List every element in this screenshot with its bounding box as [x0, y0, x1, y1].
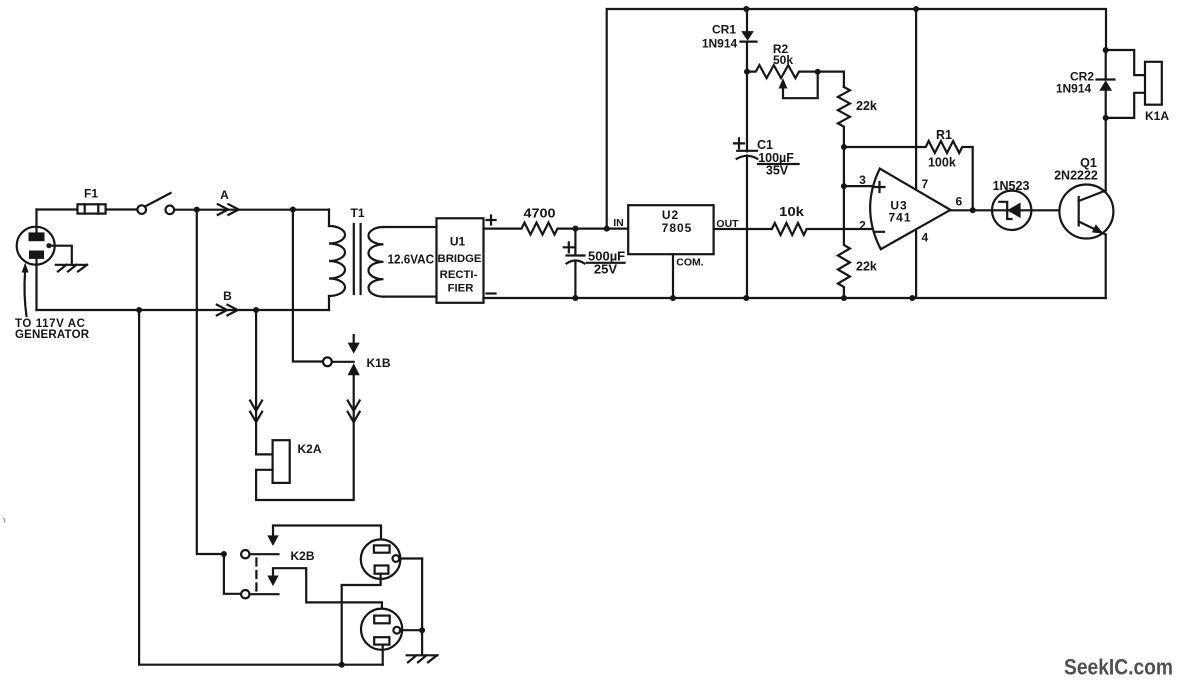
svg-text:50k: 50k	[773, 53, 793, 67]
svg-text:BRIDGE: BRIDGE	[438, 253, 482, 265]
svg-text:A: A	[220, 188, 229, 202]
svg-text:1N914: 1N914	[1056, 82, 1092, 96]
svg-text:U2: U2	[662, 208, 679, 222]
svg-text:6: 6	[956, 195, 963, 209]
svg-text:2N2222: 2N2222	[1054, 169, 1098, 183]
svg-text:741: 741	[888, 211, 911, 225]
svg-text:25V: 25V	[594, 262, 617, 277]
svg-text:100k: 100k	[928, 156, 956, 170]
svg-text:SeekIC.com: SeekIC.com	[1064, 655, 1173, 680]
svg-text:3: 3	[859, 173, 866, 187]
svg-text:4700: 4700	[524, 206, 556, 221]
svg-text:C1: C1	[757, 138, 773, 152]
svg-text:T1: T1	[350, 206, 364, 220]
svg-text:U1: U1	[450, 235, 466, 249]
svg-text:IN: IN	[613, 217, 624, 229]
svg-text:K2B: K2B	[291, 549, 315, 563]
svg-text:K1B: K1B	[367, 356, 391, 370]
svg-text:CR1: CR1	[712, 23, 736, 37]
svg-text:22k: 22k	[856, 260, 877, 274]
svg-text:COM.: COM.	[676, 257, 703, 269]
svg-text:K2A: K2A	[298, 442, 322, 456]
svg-text:7: 7	[922, 177, 929, 191]
svg-text:1N914: 1N914	[702, 37, 738, 51]
svg-text:RECTI-: RECTI-	[440, 269, 478, 281]
svg-text:7805: 7805	[662, 221, 693, 235]
svg-text:FIER: FIER	[448, 283, 474, 295]
svg-text:GENERATOR: GENERATOR	[15, 329, 90, 341]
svg-text:R1: R1	[936, 128, 952, 142]
svg-text:4: 4	[922, 231, 929, 245]
svg-text:1N523: 1N523	[993, 179, 1030, 193]
svg-text:22k: 22k	[856, 99, 877, 113]
svg-text:12.6VAC: 12.6VAC	[388, 253, 435, 267]
svg-text:35V: 35V	[766, 164, 789, 178]
svg-text:B: B	[223, 289, 232, 303]
svg-text:2: 2	[859, 219, 866, 233]
svg-text:10k: 10k	[779, 204, 805, 219]
svg-text:F1: F1	[84, 187, 98, 201]
svg-text:K1A: K1A	[1145, 109, 1169, 123]
